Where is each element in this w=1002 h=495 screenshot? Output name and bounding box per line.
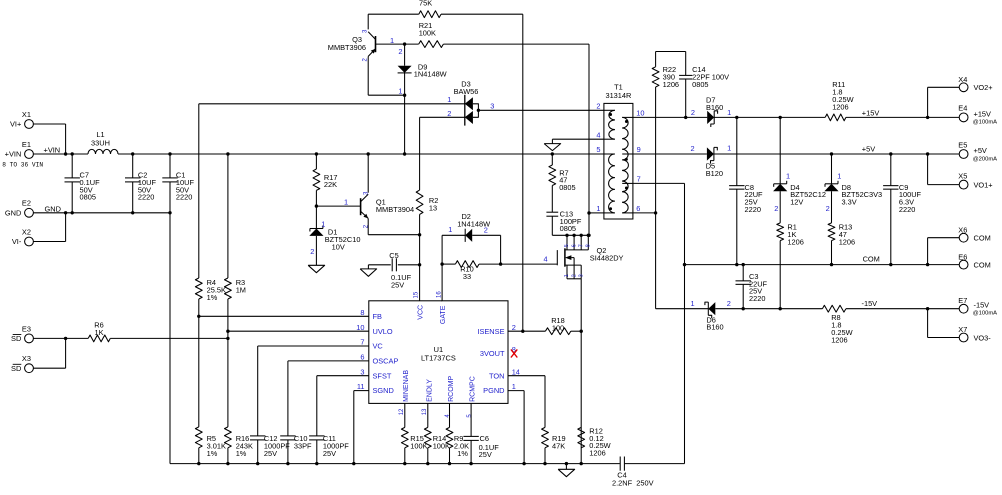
svg-text:31314R: 31314R <box>605 91 631 100</box>
wire GND from E2 <box>33 212 170 214</box>
svg-text:B160: B160 <box>706 323 723 332</box>
svg-text:2: 2 <box>447 109 451 118</box>
svg-text:0805: 0805 <box>559 183 575 192</box>
svg-text:1: 1 <box>837 172 841 181</box>
connector X6 (COM) <box>928 225 991 264</box>
svg-text:1: 1 <box>321 220 325 229</box>
svg-text:3: 3 <box>360 367 364 376</box>
diode D7 B160 <box>691 95 731 127</box>
svg-text:VO2+: VO2+ <box>974 83 993 92</box>
resistor R12 0.12 sense <box>578 426 611 457</box>
svg-text:E6: E6 <box>958 252 967 261</box>
svg-text:+VIN: +VIN <box>44 146 61 155</box>
svg-text:1: 1 <box>727 144 731 153</box>
svg-text:2220: 2220 <box>745 205 761 214</box>
wire X3 stub <box>33 337 67 369</box>
resistor R5 3.01K <box>195 427 226 465</box>
connector X7 (VO3-) <box>928 309 992 343</box>
wire X1 stub <box>33 124 67 156</box>
resistor R3 1M <box>225 152 246 427</box>
ground below D1 <box>308 265 325 272</box>
wire OSCAP to C10 <box>288 361 369 436</box>
capacitor C5 0.1UF <box>368 251 421 289</box>
diode D2 1N4148W <box>440 212 500 301</box>
svg-text:6: 6 <box>571 244 577 247</box>
connector X4 (VO2+) <box>928 75 993 117</box>
svg-text:RCMPC: RCMPC <box>470 376 477 402</box>
wire X2 stub <box>33 211 67 241</box>
svg-text:12: 12 <box>399 408 405 415</box>
svg-text:C5: C5 <box>389 251 398 260</box>
connector E2 (GND) <box>5 199 34 218</box>
svg-text:12V: 12V <box>790 198 803 207</box>
svg-text:1%: 1% <box>457 449 468 458</box>
svg-text:100K: 100K <box>419 28 436 37</box>
svg-text:3.3V: 3.3V <box>842 198 857 207</box>
svg-text:ENDLY: ENDLY <box>426 379 433 402</box>
connector X5 (VO1+) <box>928 154 993 189</box>
svg-text:3: 3 <box>578 274 584 277</box>
net label +5V <box>862 145 875 154</box>
svg-text:7: 7 <box>360 338 364 347</box>
zener D4 BZT52C12 <box>773 116 826 223</box>
wire VCC node to D3 pin 2 <box>420 116 465 118</box>
svg-text:1: 1 <box>691 299 695 308</box>
connector E1 (+VIN) <box>2 140 43 168</box>
capacitor C4 2.2NF 250V <box>612 457 654 488</box>
capacitor C9 100UF <box>883 152 921 266</box>
svg-text:8: 8 <box>586 244 592 247</box>
svg-text:X6: X6 <box>958 225 967 234</box>
svg-text:1206: 1206 <box>832 102 848 111</box>
svg-text:PGND: PGND <box>483 386 504 395</box>
svg-text:2: 2 <box>727 299 731 308</box>
svg-text:47K: 47K <box>552 442 565 451</box>
svg-text:2: 2 <box>596 102 600 111</box>
svg-text:+VIN: +VIN <box>5 150 22 159</box>
svg-text:2.2NF 250V: 2.2NF 250V <box>612 479 654 488</box>
svg-text:2220: 2220 <box>899 205 915 214</box>
svg-text:1: 1 <box>596 204 600 213</box>
svg-text:FB: FB <box>373 312 383 321</box>
svg-text:25V: 25V <box>264 449 277 458</box>
wire UVLO to divider <box>228 330 369 332</box>
svg-text:COM: COM <box>974 234 991 243</box>
svg-text:1%: 1% <box>207 293 218 302</box>
resistor R17 22K <box>313 152 337 206</box>
svg-text:VC: VC <box>373 342 384 351</box>
svg-text:2: 2 <box>774 204 778 213</box>
capacitor C14 22PF snubber <box>656 52 730 120</box>
svg-text:1: 1 <box>727 108 731 117</box>
resistor R2 13 <box>416 117 438 235</box>
wire +VIN rail from E1 to T1 pin 5 <box>33 153 604 155</box>
resistor R15 100K <box>401 403 427 465</box>
zener D8 BZT52C3V3 <box>824 152 882 223</box>
svg-text:+15V: +15V <box>862 108 880 117</box>
svg-text:E7: E7 <box>958 296 967 305</box>
svg-text:X3: X3 <box>22 354 31 363</box>
capacitor C8 22UF <box>729 116 763 267</box>
svg-text:UVLO: UVLO <box>373 327 393 336</box>
net label GND <box>45 205 61 214</box>
wire FB to divider <box>199 315 369 317</box>
capacitor C10 33PF <box>280 434 312 465</box>
svg-text:3VOUT: 3VOUT <box>480 349 505 358</box>
svg-text:6: 6 <box>636 204 640 213</box>
svg-text:@100mA: @100mA <box>973 311 997 317</box>
svg-text:1: 1 <box>448 225 452 234</box>
connector E7 (-15V) <box>928 296 998 317</box>
op-amp U1 LT1737CS controller <box>356 291 520 418</box>
resistor R9 2.0K <box>446 403 469 465</box>
connector X2 (VI-) <box>12 227 34 246</box>
connector E4 (+15V) <box>928 104 998 126</box>
svg-text:1206: 1206 <box>663 80 679 89</box>
svg-text:7: 7 <box>637 175 641 184</box>
svg-text:16: 16 <box>436 291 442 298</box>
resistor R18 100 <box>508 316 581 334</box>
wire T1 pin 6 to D6 <box>633 213 708 309</box>
svg-text:X5: X5 <box>958 171 967 180</box>
connector E3 (SD) <box>11 324 33 343</box>
svg-text:MMBT3904: MMBT3904 <box>376 205 414 214</box>
net label +VIN <box>44 146 61 155</box>
svg-text:2: 2 <box>691 108 695 117</box>
svg-text:0805: 0805 <box>80 193 96 202</box>
zener D1 BZT52C10 <box>309 206 360 265</box>
wire PGND to ground rail <box>508 391 526 466</box>
svg-text:SD: SD <box>11 364 21 373</box>
svg-text:X2: X2 <box>22 227 31 236</box>
wire T1 pin 1 to drain node <box>589 212 604 214</box>
svg-text:10: 10 <box>356 323 364 332</box>
diode D9 1N4148W <box>398 44 447 156</box>
svg-text:2220: 2220 <box>176 193 192 202</box>
resistor 75K <box>368 0 523 18</box>
dual diode D3 BAW56 <box>447 80 494 126</box>
svg-text:13: 13 <box>422 408 428 415</box>
transformer T1 31314R <box>596 82 644 219</box>
wire R21 to drain node <box>587 44 590 237</box>
svg-text:1206: 1206 <box>831 335 847 344</box>
diode D5 B120 <box>691 144 732 178</box>
capacitor C3 22UF <box>736 263 768 311</box>
svg-text:BAW56: BAW56 <box>454 87 479 96</box>
svg-text:GND: GND <box>5 209 21 218</box>
wire 75K to ISENSE node <box>521 14 524 333</box>
svg-text:B160: B160 <box>706 103 723 112</box>
svg-text:-15V: -15V <box>862 299 878 308</box>
svg-text:+15V: +15V <box>974 109 992 118</box>
svg-text:1%: 1% <box>207 449 218 458</box>
svg-text:X1: X1 <box>22 110 31 119</box>
wire SFST to C11 <box>317 376 369 436</box>
wire +5V rail <box>714 152 929 155</box>
svg-text:GND: GND <box>45 205 61 214</box>
svg-text:E3: E3 <box>22 324 31 333</box>
svg-text:2: 2 <box>571 274 577 277</box>
svg-text:10V: 10V <box>332 242 345 251</box>
svg-text:5: 5 <box>596 145 600 154</box>
svg-text:15: 15 <box>414 291 420 298</box>
svg-text:1: 1 <box>512 382 516 391</box>
bottom ground rail <box>170 463 685 465</box>
wire T1 pin 9 to D5 <box>633 153 707 155</box>
capacitor C1 10UF <box>162 152 194 463</box>
capacitor C11 1000PF <box>309 434 349 465</box>
svg-text:25V: 25V <box>391 281 404 290</box>
diode D6 B160 <box>691 299 744 332</box>
svg-text:0805: 0805 <box>692 80 708 89</box>
connector E6 (COM) <box>928 252 991 269</box>
svg-text:9: 9 <box>637 145 641 154</box>
svg-text:75K: 75K <box>419 0 432 8</box>
svg-text:E1: E1 <box>22 140 31 149</box>
svg-text:33UH: 33UH <box>91 139 110 148</box>
svg-text:LT1737CS: LT1737CS <box>421 353 456 362</box>
svg-text:OSCAP: OSCAP <box>373 357 399 366</box>
transistor Q3 MMBT3906 <box>328 14 394 95</box>
svg-text:SFST: SFST <box>373 371 392 380</box>
wire U1 GATE pin <box>441 300 444 302</box>
capacitor C7 0.1UF <box>65 152 101 214</box>
resistor R1 1K <box>777 223 804 311</box>
no-connect X at U1 pin 8 3VOUT <box>511 349 517 357</box>
wire D3 common cathode to T1 pin 2 <box>478 109 604 111</box>
resistor R21 100K <box>376 21 590 48</box>
svg-text:T1: T1 <box>614 82 623 91</box>
svg-text:25V: 25V <box>479 450 492 459</box>
ground below C5 <box>360 269 377 276</box>
ground symbol at bottom rail <box>558 462 575 477</box>
svg-text:+5V: +5V <box>974 146 987 155</box>
svg-text:COM: COM <box>974 260 991 269</box>
wire gate drive to Q2 gate <box>501 255 558 265</box>
capacitor C6 0.1UF <box>463 403 499 465</box>
svg-text:SI4482DY: SI4482DY <box>590 253 624 262</box>
svg-text:100: 100 <box>552 323 564 332</box>
svg-text:GATE: GATE <box>440 305 447 324</box>
svg-text:22K: 22K <box>324 180 337 189</box>
svg-text:E2: E2 <box>22 199 31 208</box>
svg-text:6: 6 <box>360 353 364 362</box>
resistor R6 1K <box>33 321 229 342</box>
wire VCC to U1 pin 15 <box>419 235 421 301</box>
svg-text:@100mA: @100mA <box>973 120 997 126</box>
capacitor C12 1000PF <box>250 434 290 465</box>
svg-text:VI+: VI+ <box>10 120 21 129</box>
svg-text:ISENSE: ISENSE <box>477 327 504 336</box>
wire Q2 source to R12 <box>580 279 583 466</box>
svg-text:1%: 1% <box>236 449 247 458</box>
net label -15V <box>862 299 878 308</box>
svg-text:E4: E4 <box>958 104 967 113</box>
capacitor C13 100PF snubber <box>546 209 581 235</box>
svg-text:14: 14 <box>512 367 520 376</box>
svg-text:1N4148W: 1N4148W <box>457 219 490 228</box>
svg-text:1: 1 <box>398 86 402 95</box>
svg-text:1: 1 <box>344 198 348 207</box>
net label +15V <box>862 108 880 117</box>
wire Q1 emitter to VCC node <box>368 233 421 236</box>
svg-text:5: 5 <box>564 244 570 247</box>
wire R17 to Q1 base <box>315 204 361 207</box>
svg-text:VO1+: VO1+ <box>974 180 993 189</box>
svg-text:-15V: -15V <box>974 300 990 309</box>
wire +15V rail <box>714 116 929 119</box>
svg-text:B120: B120 <box>706 169 723 178</box>
svg-text:11: 11 <box>357 382 365 391</box>
svg-text:25V: 25V <box>323 449 336 458</box>
svg-text:1206: 1206 <box>589 449 605 458</box>
wire COM rail <box>685 263 930 266</box>
svg-text:1206: 1206 <box>839 237 855 246</box>
svg-text:MMBT3906: MMBT3906 <box>328 43 366 52</box>
svg-text:RCOMP: RCOMP <box>448 376 455 402</box>
svg-text:MINENAB: MINENAB <box>403 370 410 402</box>
transistor Q1 MMBT3904 <box>344 152 414 234</box>
svg-text:VO3-: VO3- <box>974 333 992 342</box>
resistor R16 243K <box>225 427 254 465</box>
svg-text:2: 2 <box>826 204 830 213</box>
svg-text:1M: 1M <box>236 286 246 295</box>
svg-text:SD: SD <box>11 334 21 343</box>
svg-text:1206: 1206 <box>787 237 803 246</box>
svg-text:2: 2 <box>512 323 516 332</box>
svg-text:33PF: 33PF <box>294 442 312 451</box>
resistor R11 1.8 <box>825 80 853 121</box>
svg-text:2: 2 <box>310 247 314 256</box>
resistor R19 47K <box>508 376 566 466</box>
svg-text:33: 33 <box>463 272 471 281</box>
svg-text:VI-: VI- <box>12 237 22 246</box>
wire -15V rail <box>743 307 929 310</box>
svg-text:8: 8 <box>360 308 364 317</box>
svg-text:E5: E5 <box>958 141 967 150</box>
svg-text:3: 3 <box>490 102 494 111</box>
connector X1 (VI+) <box>10 110 33 129</box>
svg-text:1: 1 <box>564 274 570 277</box>
svg-text:10: 10 <box>636 109 644 118</box>
svg-text:VCC: VCC <box>417 305 424 320</box>
svg-text:SGND: SGND <box>373 386 394 395</box>
svg-text:4: 4 <box>543 255 547 264</box>
svg-text:2220: 2220 <box>138 193 154 202</box>
resistor R10 33 <box>442 235 502 281</box>
svg-text:1K: 1K <box>94 328 103 337</box>
resistor R13 47 <box>828 223 855 267</box>
capacitor C2 10UF <box>125 152 156 214</box>
resistor R4 25.5K divider top <box>195 104 226 427</box>
connector E5 (+5V) <box>928 141 998 163</box>
inductor L1 33UH <box>88 130 118 154</box>
resistor R8 1.8 <box>822 305 852 344</box>
resistor R7 47 snubber <box>549 152 576 212</box>
svg-text:13: 13 <box>429 203 437 212</box>
svg-text:8 TO 36 VIN: 8 TO 36 VIN <box>2 161 43 168</box>
svg-text:2220: 2220 <box>749 294 765 303</box>
svg-text:+5V: +5V <box>862 145 875 154</box>
svg-text:7: 7 <box>578 244 584 247</box>
svg-text:1N4148W: 1N4148W <box>414 70 447 79</box>
resistor R14 100K <box>424 403 450 465</box>
wire T1 pin 7 to COM <box>633 183 686 463</box>
wire SGND to ground rail <box>352 391 369 466</box>
wire bias rectifier node to R4 <box>199 103 465 105</box>
svg-text:1: 1 <box>447 95 451 104</box>
svg-text:@200mA: @200mA <box>973 156 997 162</box>
svg-text:COM: COM <box>863 254 880 263</box>
svg-text:0805: 0805 <box>560 224 576 233</box>
svg-text:TON: TON <box>489 371 504 380</box>
svg-text:2: 2 <box>398 47 402 56</box>
svg-text:1: 1 <box>786 172 790 181</box>
svg-text:4: 4 <box>596 130 600 139</box>
svg-text:2: 2 <box>691 144 695 153</box>
svg-text:X7: X7 <box>958 325 967 334</box>
wire T1 pin 10 to D7 <box>633 116 707 118</box>
resistor R22 390 snubber <box>652 52 679 309</box>
ground symbol at T1 pin 4 <box>544 139 604 150</box>
net label COM <box>863 254 880 263</box>
svg-text:X4: X4 <box>958 75 967 84</box>
connector X3 (SD) <box>11 354 33 373</box>
wire VC to C12 <box>258 346 369 436</box>
wire Q3 collector to D9 node <box>368 94 406 97</box>
mosfet Q2 SI4482DY <box>552 234 623 279</box>
